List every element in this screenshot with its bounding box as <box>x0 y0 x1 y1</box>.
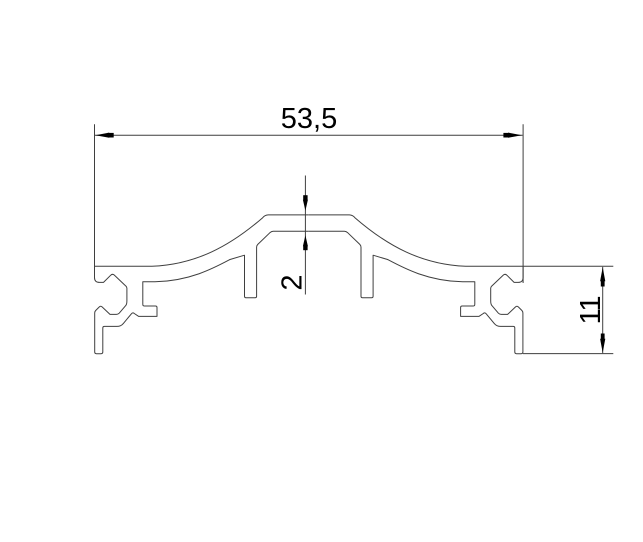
svg-text:11: 11 <box>575 297 607 325</box>
svg-text:53,5: 53,5 <box>281 103 337 135</box>
svg-text:2: 2 <box>277 274 309 290</box>
